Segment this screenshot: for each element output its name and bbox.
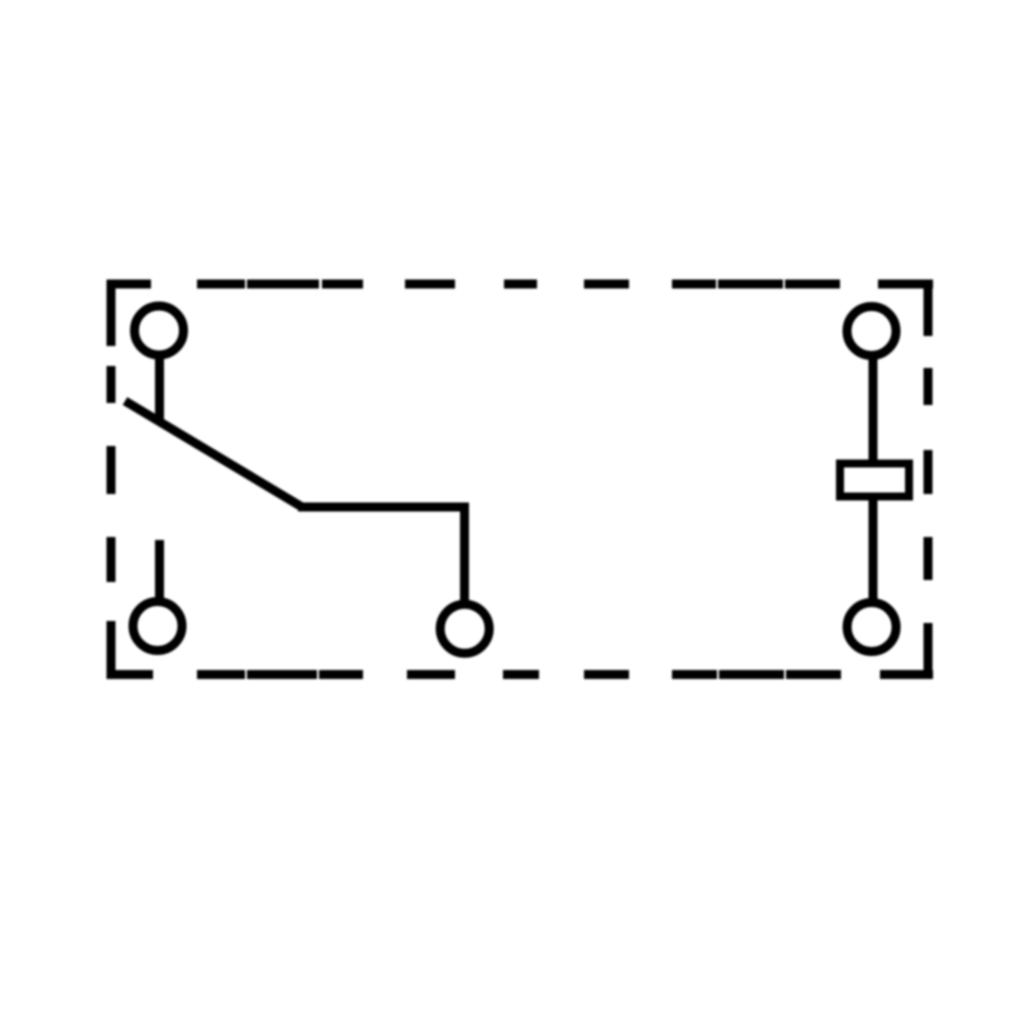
wire stub of fixed contact above pin 3 xyxy=(155,540,164,600)
relay K1 enclosure: dashed outline, bottom edge xyxy=(107,670,933,679)
pin 3 terminal circle (bottom-left contact) xyxy=(133,602,182,651)
wire from pin 2 down to coil xyxy=(869,354,878,462)
relay coil (rectangle) xyxy=(840,464,909,497)
pin 4 terminal circle (bottom-middle contact) xyxy=(440,604,489,653)
wire from pin 1 down to armature pivot xyxy=(155,354,164,421)
relay K1 enclosure: dashed outline, left edge xyxy=(107,280,116,680)
pin 5 terminal circle (coil B, bottom-right) xyxy=(847,603,896,652)
relay K1 enclosure: dashed outline, top edge xyxy=(107,280,933,289)
switch armature (movable contact arm, diagonal) xyxy=(125,401,302,507)
wire from coil down to pin 5 xyxy=(869,497,878,603)
pin 2 terminal circle (coil A, top-right) xyxy=(847,307,896,356)
relay K1 enclosure: dashed outline, right edge xyxy=(924,280,933,680)
wire from armature via horizontal run down to pin 4 xyxy=(298,507,465,604)
pin 1 terminal circle (common, top-left) xyxy=(135,306,184,355)
